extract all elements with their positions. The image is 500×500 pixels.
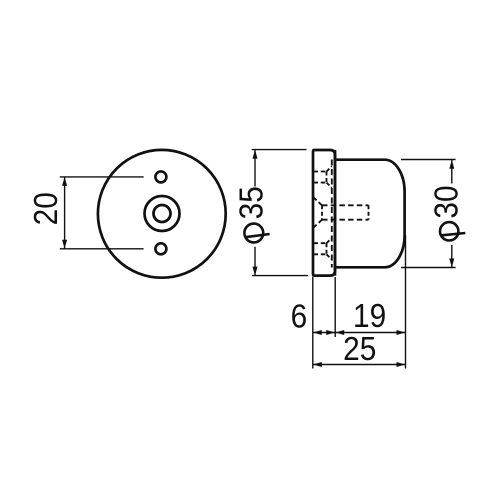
center boss outer circle [145,196,180,231]
svg-text:30: 30 [427,185,465,218]
dimension phi35: extension top [252,149,307,151]
dimension 19: arrow left [335,330,344,335]
hidden bottom screw hole: lower line [314,253,327,255]
dimension line 6 and 19 [313,332,406,334]
extension line: flange right face down [334,277,336,337]
hidden center hole: cone-cylinder junction [321,205,323,219]
dimension phi35: arrow up [253,150,258,159]
svg-text:35: 35 [232,186,270,219]
hidden bottom screw hole: countersink lower [327,254,332,259]
dimension phi35: extension bottom [252,275,308,277]
phi symbol for 35 [244,224,269,243]
hidden bottom screw hole: countersink upper [327,238,332,243]
extension line: dome right down [405,235,407,369]
dimension 6: arrow right [326,330,335,335]
dimension 25: arrow right [397,362,406,367]
dimension 20: extension line top [60,176,144,178]
dimension phi35: line lower segment [254,247,256,276]
dimension 19: arrow right [397,330,406,335]
hidden top screw hole: countersink upper [327,166,332,171]
dimension phi35: line upper segment [254,150,256,187]
hidden top screw hole: bottom of hole [326,172,328,183]
dimension 20: dimension line [64,177,66,249]
dimension 20: extension line bottom [60,248,144,250]
hidden top screw hole: lower line [314,182,327,184]
center hole inner circle [154,205,171,222]
dome body outline [335,160,405,268]
svg-text:20: 20 [26,192,64,225]
flange side profile [313,150,335,276]
hidden bottom screw hole: bottom of hole [326,243,328,254]
hidden center hole: flat bottom [368,205,370,219]
dimension phi30: extension top [401,159,456,161]
dimension phi35: arrow down [253,267,258,276]
dimension 20: arrow up [62,177,67,186]
dimension phi30: line lower segment [451,245,453,268]
top screw hole [155,171,166,182]
dimension 6: arrow left [313,330,322,335]
extension line: flange left face down [312,277,314,369]
flange right face line [334,150,337,276]
hidden line: body face behind flange [331,160,333,268]
hidden top screw hole: upper line [314,171,327,173]
hidden top screw hole: countersink lower [327,183,332,188]
dimension 25: arrow left [313,362,322,367]
dimension phi30: line upper segment [451,160,453,184]
hidden center hole: lower wall [322,219,369,221]
dimension phi30: arrow down [449,259,454,268]
svg-text:6: 6 [291,297,308,335]
dimension phi30: arrow up [449,160,454,169]
dimension phi30: extension bottom [401,267,456,269]
svg-text:25: 25 [343,330,376,368]
dimension line 25 [313,364,406,366]
flange outline circle front view [98,150,226,278]
phi symbol for 30 [440,222,465,240]
dimension 20: arrow down [62,240,67,249]
hidden center hole: countersink cone upper [313,197,322,205]
hidden center hole: countersink cone lower [313,220,322,228]
hidden bottom screw hole: upper line [314,242,327,244]
hidden center hole: upper wall [322,204,369,206]
bottom screw hole [155,243,166,254]
